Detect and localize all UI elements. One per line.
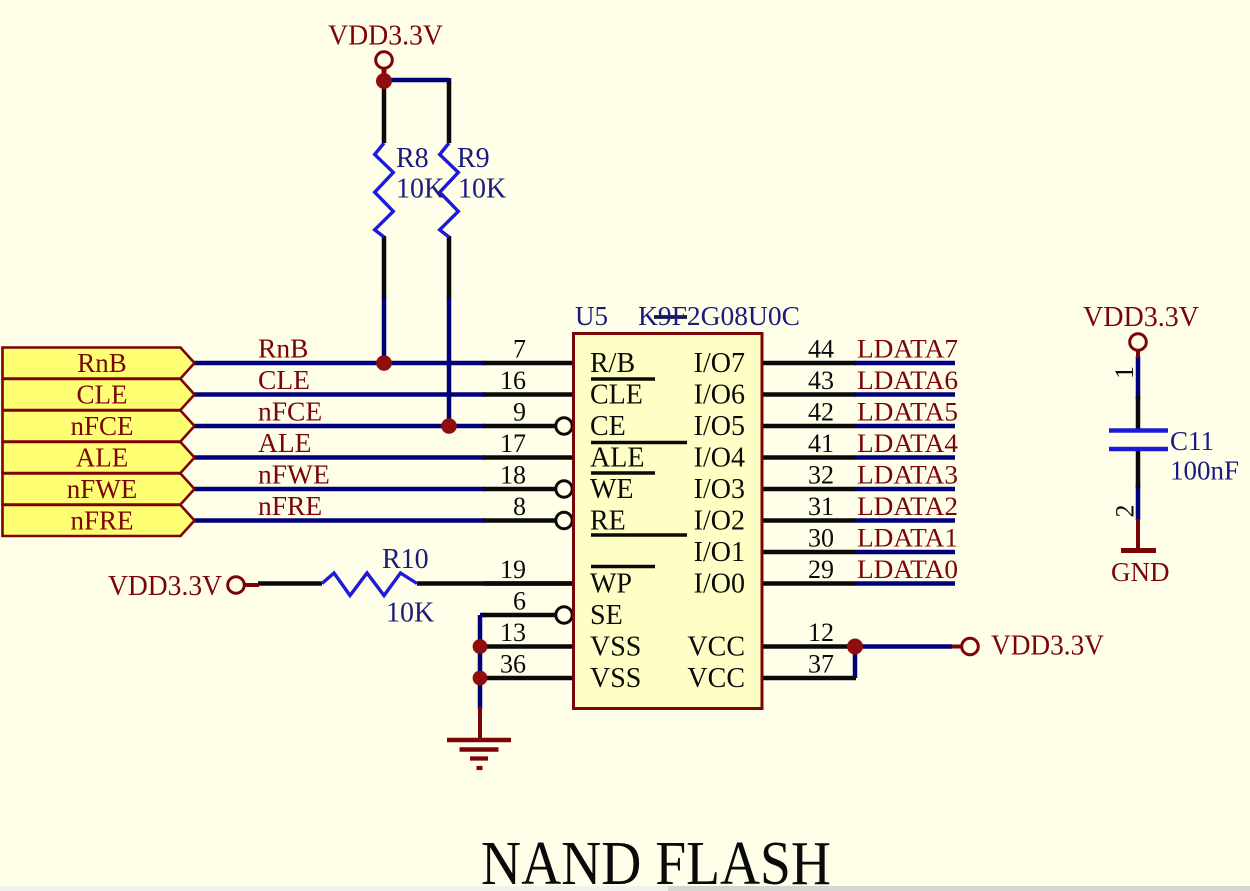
svg-text:CLE: CLE [77,380,128,410]
svg-text:nFWE: nFWE [67,474,138,504]
svg-text:19: 19 [500,555,526,584]
svg-text:CLE: CLE [258,364,310,395]
svg-text:10K: 10K [458,174,506,205]
svg-text:18: 18 [500,461,526,490]
svg-text:I/O2: I/O2 [694,506,745,537]
svg-text:VDD3.3V: VDD3.3V [328,21,443,52]
svg-text:10K: 10K [386,598,434,629]
svg-text:I/O4: I/O4 [694,443,745,474]
svg-text:LDATA7: LDATA7 [857,335,958,364]
svg-text:GND: GND [1111,557,1170,587]
svg-text:13: 13 [500,618,526,647]
svg-text:VCC: VCC [687,663,745,694]
svg-text:31: 31 [808,492,834,521]
svg-text:nFCE: nFCE [258,396,322,427]
svg-text:I/O6: I/O6 [694,380,745,411]
svg-text:16: 16 [500,366,526,395]
svg-text:CLE: CLE [590,380,643,411]
svg-text:SE: SE [590,600,623,631]
svg-text:RnB: RnB [77,348,127,378]
svg-text:I/O7: I/O7 [694,348,745,379]
svg-text:I/O3: I/O3 [694,474,745,505]
svg-text:R9: R9 [457,143,490,174]
svg-text:C11: C11 [1170,426,1214,456]
svg-text:37: 37 [808,650,834,679]
svg-text:1: 1 [1110,366,1139,379]
svg-text:8: 8 [513,492,526,521]
svg-text:CE: CE [590,411,626,442]
svg-text:36: 36 [500,650,526,679]
svg-text:I/O0: I/O0 [694,569,745,600]
svg-text:6: 6 [513,587,526,616]
svg-text:43: 43 [808,366,834,395]
svg-text:VDD3.3V: VDD3.3V [108,571,222,602]
svg-text:42: 42 [808,398,834,427]
svg-text:nFCE: nFCE [70,411,133,441]
svg-text:R10: R10 [382,544,429,575]
svg-text:I/O1: I/O1 [694,537,745,568]
svg-text:12: 12 [808,618,834,647]
svg-text:17: 17 [500,429,526,458]
svg-text:10K: 10K [396,174,444,205]
svg-text:9: 9 [513,398,526,427]
svg-text:LDATA2: LDATA2 [857,492,958,521]
svg-text:RE: RE [590,506,626,537]
svg-text:LDATA3: LDATA3 [857,461,958,490]
svg-text:WP: WP [590,569,632,600]
svg-text:LDATA0: LDATA0 [857,555,958,584]
svg-text:VDD3.3V: VDD3.3V [1083,302,1199,333]
svg-text:LDATA6: LDATA6 [857,366,958,395]
svg-text:VDD3.3V: VDD3.3V [991,631,1104,662]
svg-text:ALE: ALE [258,427,311,458]
svg-text:LDATA1: LDATA1 [857,524,958,553]
svg-text:44: 44 [808,335,834,364]
svg-text:R/B: R/B [590,348,635,379]
svg-text:WE: WE [590,474,634,505]
svg-text:2: 2 [1111,505,1140,518]
svg-text:30: 30 [808,524,834,553]
svg-text:nFRE: nFRE [70,506,133,536]
svg-text:nFWE: nFWE [258,459,330,490]
svg-text:nFRE: nFRE [258,490,322,521]
svg-text:I/O5: I/O5 [694,411,745,442]
svg-text:R8: R8 [396,143,429,174]
svg-text:VSS: VSS [590,632,641,663]
svg-text:LDATA5: LDATA5 [857,398,958,427]
svg-text:ALE: ALE [76,443,128,473]
svg-text:ALE: ALE [590,443,644,474]
svg-text:VCC: VCC [687,632,745,663]
svg-text:41: 41 [808,429,834,458]
svg-text:U5: U5 [575,301,608,331]
svg-text:29: 29 [808,555,834,584]
svg-text:LDATA4: LDATA4 [857,429,958,458]
svg-text:VSS: VSS [590,663,641,694]
svg-text:RnB: RnB [258,333,308,364]
svg-text:32: 32 [808,461,834,490]
svg-text:K9F2G08U0C: K9F2G08U0C [638,301,800,331]
svg-text:7: 7 [513,335,526,364]
svg-text:100nF: 100nF [1170,456,1239,486]
svg-text:NAND FLASH: NAND FLASH [481,830,831,891]
